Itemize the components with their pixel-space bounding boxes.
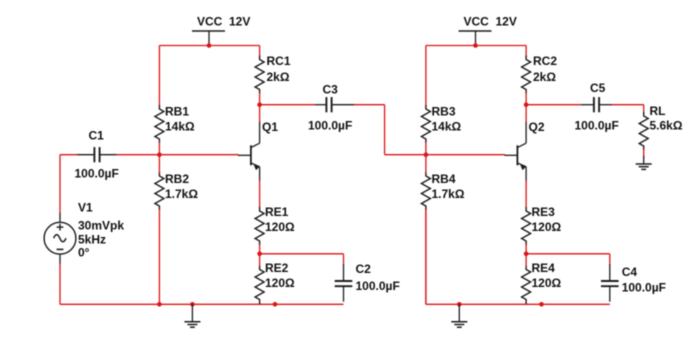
svg-text:100.0µF: 100.0µF xyxy=(575,119,619,133)
svg-text:1.7kΩ: 1.7kΩ xyxy=(165,187,198,201)
node C (RE1/RE2 junction) xyxy=(257,252,262,257)
wire C1 left to V1 corner xyxy=(60,154,78,156)
junction ground stage 2 xyxy=(457,302,462,307)
wire RB4 to bottom rail xyxy=(425,209,427,304)
transistor Q1 xyxy=(238,120,278,181)
wire Q1 collector to C3 xyxy=(260,104,316,106)
svg-text:120Ω: 120Ω xyxy=(532,276,562,290)
wire C2 upper drop xyxy=(343,254,345,264)
svg-text:RL: RL xyxy=(650,104,666,118)
wire RE1 to node C xyxy=(259,244,261,254)
svg-text:RB2: RB2 xyxy=(165,172,189,186)
node F (RE3/RE4 junction) xyxy=(524,252,529,257)
wire RC2 branch upper xyxy=(525,46,527,57)
junction VCC1 xyxy=(207,43,212,48)
wire node C to C2 xyxy=(260,253,344,255)
svg-text:VCC: VCC xyxy=(197,15,223,29)
svg-text:RE1: RE1 xyxy=(265,205,289,219)
svg-text:RC2: RC2 xyxy=(533,54,557,68)
svg-text:RC1: RC1 xyxy=(267,54,291,68)
svg-text:12V: 12V xyxy=(496,15,517,29)
wire C1 to node A xyxy=(117,154,160,156)
svg-text:C3: C3 xyxy=(323,83,339,97)
resistor RE2 120Ω xyxy=(255,261,295,304)
ground RL xyxy=(636,156,652,169)
svg-text:VCC: VCC xyxy=(464,15,490,29)
junction ground stage 1 xyxy=(190,302,195,307)
junction VCC2 xyxy=(473,43,478,48)
wire RB2 to bottom rail xyxy=(158,209,160,304)
svg-text:12V: 12V xyxy=(229,15,250,29)
svg-text:2kΩ: 2kΩ xyxy=(267,70,290,84)
wire top rail stage 2 xyxy=(426,45,526,47)
wire RE2 upper lead xyxy=(259,254,261,267)
ground stage 1 xyxy=(184,304,200,327)
capacitor C5 100.0µF xyxy=(575,81,619,133)
svg-text:Q1: Q1 xyxy=(262,120,278,134)
wire RL to ground xyxy=(643,149,645,158)
resistor RC1 2kΩ xyxy=(255,54,291,94)
node A (Q1 base bias node) xyxy=(157,152,162,157)
svg-text:2kΩ: 2kΩ xyxy=(533,70,556,84)
wire RB3 to node D xyxy=(425,142,427,155)
capacitor C2 100.0µF xyxy=(335,262,400,302)
wire C5 to RL corner xyxy=(612,104,644,106)
wire corner drop mid xyxy=(384,105,386,155)
node D (Q2 base bias node) xyxy=(424,152,429,157)
svg-text:RE4: RE4 xyxy=(532,261,556,275)
capacitor C3 100.0µF xyxy=(308,83,354,133)
wire V1 top lead xyxy=(59,155,61,213)
ground stage 2 xyxy=(451,304,467,327)
wire RC1 to collector node xyxy=(259,93,261,105)
junction bottom rail stage 1 mid xyxy=(273,302,278,307)
svg-text:100.0µF: 100.0µF xyxy=(75,167,119,181)
wire RB1 to node A xyxy=(158,142,160,155)
wire node F to C4 xyxy=(526,253,610,255)
svg-text:100.0µF: 100.0µF xyxy=(308,119,352,133)
source V1 30mVpk 5kHz sine xyxy=(44,201,124,265)
svg-text:1.7kΩ: 1.7kΩ xyxy=(432,187,465,201)
junction bottom rail stage 2 mid xyxy=(539,302,544,307)
wire Q2 collector to C5 xyxy=(526,104,581,106)
svg-text:120Ω: 120Ω xyxy=(532,220,562,234)
svg-text:C1: C1 xyxy=(89,129,105,143)
power symbol VCC2 12V xyxy=(459,15,517,46)
wire Q2 collector red xyxy=(525,105,527,122)
wire C3 to corner xyxy=(354,104,385,106)
svg-text:30mVpk: 30mVpk xyxy=(78,219,124,233)
svg-text:120Ω: 120Ω xyxy=(265,220,295,234)
svg-text:14kΩ: 14kΩ xyxy=(165,120,195,134)
svg-text:100.0µF: 100.0µF xyxy=(622,281,666,295)
svg-text:RB4: RB4 xyxy=(432,172,456,186)
wire V1 bottom to rail xyxy=(59,264,61,305)
resistor RB3 14kΩ xyxy=(421,105,461,144)
wire stage2 rail left riser xyxy=(425,209,427,304)
wire RB4 upper lead xyxy=(425,155,427,173)
wire Q2 emitter red xyxy=(525,180,527,208)
wire RB3 branch upper xyxy=(425,46,427,107)
capacitor C1 100.0µF xyxy=(75,129,119,181)
resistor RC2 2kΩ xyxy=(522,54,558,94)
wire C4 upper drop xyxy=(609,254,611,264)
node B (Q1 collector node) xyxy=(257,102,262,107)
svg-text:5kHz: 5kHz xyxy=(78,233,106,247)
wire top rail stage 1 xyxy=(159,45,259,47)
capacitor C4 100.0µF xyxy=(601,264,666,302)
svg-text:5.6kΩ: 5.6kΩ xyxy=(650,119,683,133)
wire RB2 upper lead xyxy=(158,155,160,173)
wire RL upper lead xyxy=(643,105,645,113)
wire bottom rail stage 1 xyxy=(60,303,344,305)
svg-text:RE2: RE2 xyxy=(265,261,289,275)
resistor RB2 1.7kΩ xyxy=(155,172,198,210)
transistor Q2 xyxy=(504,120,544,181)
wire RB1 branch upper xyxy=(158,46,160,107)
wire corner to node D xyxy=(385,154,426,156)
svg-text:0°: 0° xyxy=(78,246,90,260)
node E (Q2 collector node) xyxy=(524,102,529,107)
wire Q1 collector red xyxy=(259,105,261,122)
resistor RE1 120Ω xyxy=(255,205,295,245)
wire RC1 branch upper xyxy=(259,46,261,57)
resistor RB4 1.7kΩ xyxy=(421,172,464,210)
power symbol VCC1 12V xyxy=(192,15,250,46)
wire bottom rail stage 2 xyxy=(426,303,610,305)
svg-text:RB1: RB1 xyxy=(165,105,189,119)
wire RE3 to node F xyxy=(525,244,527,254)
resistor RE3 120Ω xyxy=(522,205,562,245)
resistor RB1 14kΩ xyxy=(155,105,195,144)
junction RB2/bottom rail xyxy=(157,302,162,307)
wire RE4 upper lead xyxy=(525,254,527,267)
resistor RL 5.6kΩ xyxy=(639,104,683,150)
svg-text:C4: C4 xyxy=(622,265,638,279)
svg-text:C2: C2 xyxy=(356,262,372,276)
wire Q1 emitter red xyxy=(259,180,261,208)
svg-text:14kΩ: 14kΩ xyxy=(432,120,462,134)
svg-text:V1: V1 xyxy=(78,201,93,215)
wire node A to Q1 base xyxy=(159,154,238,156)
svg-text:RE3: RE3 xyxy=(532,205,556,219)
svg-text:C5: C5 xyxy=(590,81,606,95)
svg-text:120Ω: 120Ω xyxy=(265,276,295,290)
resistor RE4 120Ω xyxy=(522,261,562,304)
svg-text:RB3: RB3 xyxy=(432,105,456,119)
svg-text:100.0µF: 100.0µF xyxy=(356,279,400,293)
svg-text:Q2: Q2 xyxy=(529,120,545,134)
wire RC2 to collector node xyxy=(525,93,527,105)
wire node D to Q2 base xyxy=(426,154,505,156)
